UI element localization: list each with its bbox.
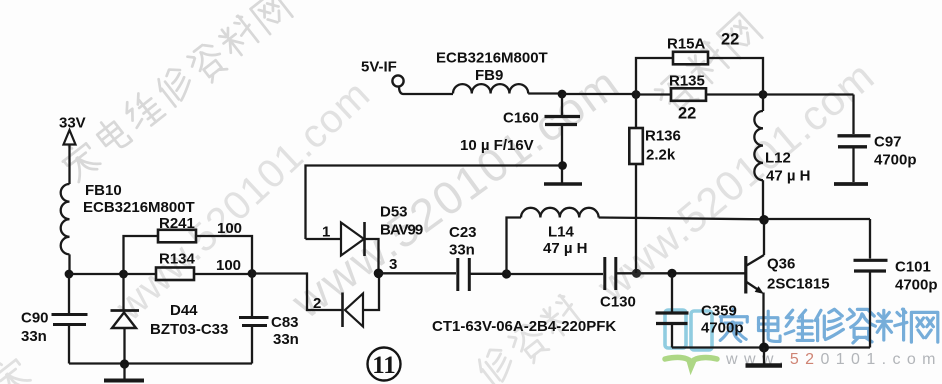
watermark gray CJK top-right — [652, 11, 763, 119]
ground left — [104, 364, 144, 381]
capacitor C97 — [838, 95, 871, 183]
wire C130 to base line — [617, 272, 745, 274]
wire bottom rail left — [69, 362, 252, 364]
svg-text:4700p: 4700p — [895, 277, 938, 294]
wire FB10 to node A — [68, 254, 70, 274]
wire N4 to C130 — [507, 273, 604, 275]
svg-text:FB10: FB10 — [85, 182, 122, 199]
resistor R134 — [156, 268, 194, 281]
terminal 5V-IF — [392, 75, 403, 86]
svg-text:ECB3216M800T: ECB3216M800T — [436, 50, 548, 67]
svg-text:3: 3 — [389, 256, 397, 273]
diode D53 upper — [341, 222, 365, 256]
svg-text:C97: C97 — [874, 134, 902, 151]
wire L14 to node N5 — [599, 218, 764, 220]
svg-text:D44: D44 — [170, 302, 198, 319]
node B junction — [119, 270, 128, 279]
svg-text:Q36: Q36 — [767, 256, 795, 273]
svg-text:11: 11 — [372, 352, 396, 379]
node J1 junction — [558, 90, 567, 99]
svg-text:C359: C359 — [701, 303, 737, 320]
wire N4 up to L14 — [507, 218, 522, 275]
wire R15A branch left — [636, 58, 673, 95]
svg-text:100: 100 — [216, 257, 241, 274]
wire node3 to C23 — [379, 272, 457, 274]
node N4 junction — [502, 269, 511, 278]
wire B to R134 — [124, 273, 157, 275]
svg-text:2.2k: 2.2k — [646, 147, 676, 164]
wire C23 to node N4 — [471, 273, 507, 275]
svg-text:C160: C160 — [503, 110, 539, 127]
svg-text:R136: R136 — [645, 128, 681, 145]
svg-text:4700p: 4700p — [874, 152, 917, 169]
capacitor C23 — [458, 258, 470, 291]
wire R241 branch right stub — [196, 236, 252, 274]
svg-text:47 µ H: 47 µ H — [766, 168, 811, 185]
node N7 junction — [759, 343, 769, 353]
resistor R241 — [158, 230, 196, 243]
node N6 junction — [667, 269, 676, 278]
node C junction — [248, 269, 257, 278]
transistor Q36 — [746, 220, 764, 347]
circled number 11 — [368, 348, 401, 381]
svg-text:R15A: R15A — [667, 36, 706, 53]
ground C160 — [544, 182, 582, 186]
svg-text:4700p: 4700p — [701, 320, 744, 337]
wire J2 to R135 — [636, 93, 671, 95]
wire bottom rail right — [672, 346, 870, 348]
ground right — [746, 348, 783, 366]
svg-text:C90: C90 — [21, 310, 49, 327]
svg-text:22: 22 — [678, 105, 696, 123]
ground C97 — [834, 182, 868, 186]
node 3 junction — [374, 269, 384, 279]
wire B down to D44 — [122, 274, 124, 310]
svg-text:BAV99: BAV99 — [380, 222, 423, 239]
svg-text:33n: 33n — [273, 331, 299, 348]
capacitor C130 — [605, 257, 616, 290]
diode D44 zener — [111, 311, 140, 329]
capacitor C90 — [52, 274, 88, 364]
capacitor C160 — [545, 94, 581, 183]
svg-text:1: 1 — [322, 224, 330, 241]
diode D53 lower — [343, 293, 364, 328]
resistor R135 — [671, 88, 706, 101]
node N5 junction — [759, 215, 769, 225]
inductor L12 — [754, 95, 763, 221]
node J3 junction — [759, 90, 768, 99]
svg-text:CT1-63V-06A-2B4-220PFK: CT1-63V-06A-2B4-220PFK — [432, 318, 616, 335]
svg-text:FB9: FB9 — [475, 67, 503, 84]
svg-text:ECB3216M800T: ECB3216M800T — [83, 199, 195, 216]
svg-text:C101: C101 — [895, 259, 931, 276]
svg-text:2SC1815: 2SC1815 — [767, 276, 830, 293]
node bottom junction — [120, 359, 129, 368]
watermark teal logo open book — [665, 310, 712, 350]
wire R135 to node J3 — [706, 93, 763, 95]
wire J3 to C97 corner — [763, 93, 854, 95]
svg-text:22: 22 — [721, 31, 739, 49]
node 33V supply arrow — [64, 130, 76, 184]
resistor R136 — [629, 95, 643, 274]
wire C to pin 2 — [252, 274, 342, 311]
svg-text:D53: D53 — [380, 204, 408, 221]
wire D53 top link — [306, 166, 563, 240]
wire FB9 to node J1 — [528, 92, 562, 94]
svg-text:R135: R135 — [669, 73, 705, 90]
svg-text:R134: R134 — [159, 251, 196, 268]
svg-text:5V-IF: 5V-IF — [361, 59, 397, 76]
wire R134 to node C — [194, 273, 252, 275]
svg-text:100: 100 — [217, 220, 242, 237]
inductor L14 — [521, 208, 599, 218]
inductor FB9 — [453, 84, 528, 93]
inductor FB10 — [61, 184, 70, 254]
watermark gray CJK bottom-center — [474, 293, 586, 384]
wire rail A-B — [69, 273, 123, 275]
watermark gray CJK bottom-left corner — [0, 353, 33, 384]
capacitor C101 — [854, 219, 888, 348]
svg-text:C83: C83 — [271, 314, 299, 331]
svg-text:33n: 33n — [21, 328, 47, 345]
svg-text:BZT03-C33: BZT03-C33 — [150, 321, 228, 338]
wire D44 to bottom rail — [123, 328, 125, 364]
svg-text:C23: C23 — [449, 224, 477, 241]
wire N5 to C101 corner — [764, 218, 870, 220]
capacitor C83 — [239, 274, 269, 364]
svg-text:L12: L12 — [765, 150, 791, 167]
node A junction — [65, 270, 74, 279]
node J2 junction — [632, 90, 641, 99]
node C160 bottom junction — [558, 161, 567, 170]
node R136 foot junction — [632, 269, 641, 278]
svg-text:L14: L14 — [548, 224, 575, 241]
wire D53 lower to node 3 — [363, 273, 379, 310]
watermark gray CJK top-left — [58, 0, 294, 185]
capacitor C359 — [656, 273, 689, 347]
svg-text:R241: R241 — [159, 215, 195, 232]
svg-text:2: 2 — [313, 295, 321, 312]
watermark green book ribbon — [665, 358, 717, 368]
wire R241 branch left stub — [124, 236, 159, 274]
watermark blue CJK — [720, 309, 938, 343]
svg-text:C130: C130 — [600, 294, 636, 311]
wire pin 1 lead — [306, 238, 342, 240]
resistor R15A — [673, 52, 708, 65]
wire R15A branch right — [708, 58, 763, 95]
wire J1 to J2 — [562, 93, 636, 95]
svg-text:33V: 33V — [59, 115, 86, 132]
svg-text:47 µ H: 47 µ H — [543, 240, 588, 257]
svg-text:33n: 33n — [449, 242, 475, 259]
wire D53 upper to node 3 — [365, 239, 379, 273]
svg-text:10 µ F/16V: 10 µ F/16V — [460, 137, 534, 154]
wire terminal to FB9 — [399, 87, 453, 95]
